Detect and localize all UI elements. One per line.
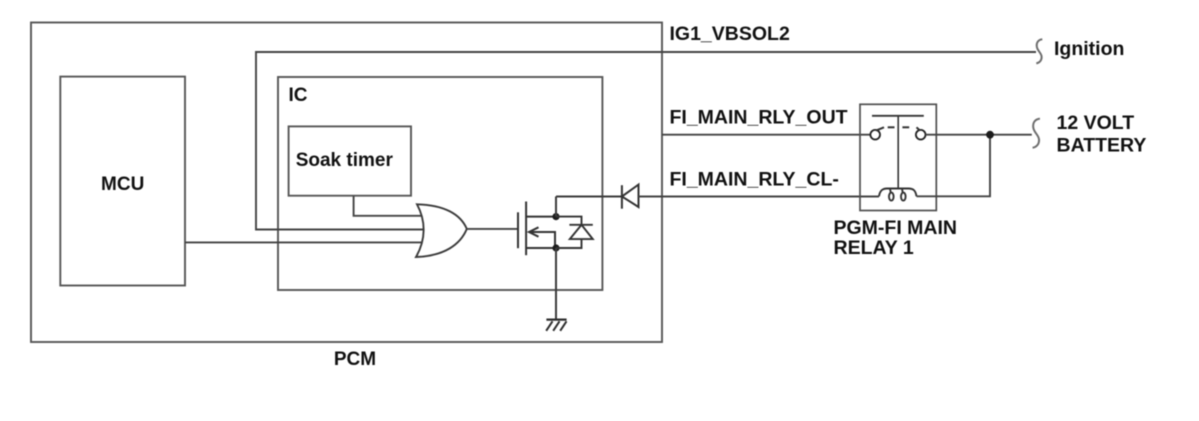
body stub with arrow [530,232,555,248]
svg-text:PCM: PCM [334,349,376,370]
wire drain up to FI_MAIN_RLY_CL- [555,197,557,217]
break squiggle to Ignition [1036,39,1042,63]
transistor Q1 (N-channel MOSFET) [518,202,556,256]
svg-text:12 VOLT: 12 VOLT [1057,112,1135,134]
relay K1 PGM-FI MAIN RELAY 1 box [860,104,936,210]
svg-text:FI_MAIN_RLY_OUT: FI_MAIN_RLY_OUT [670,107,848,129]
wire relay coil to battery junction [917,135,991,197]
drain stub [526,216,556,218]
relay contact terminal right [916,130,926,140]
wire FI_MAIN_RLY_CL- to diode [556,196,622,198]
or-gate U1 [416,204,467,257]
source stub [526,247,556,249]
wire relay contact to battery [926,134,1032,136]
wire OR gate output to MOSFET gate [467,228,518,230]
wire MCU output to OR gate input [185,241,434,243]
wire Soak timer output to OR gate input [354,196,432,216]
svg-text:MCU: MCU [101,174,144,195]
MCU box [60,77,185,286]
node drain junction [552,213,559,220]
relay armature top bar [872,115,924,117]
arrow [529,227,539,236]
node source junction [552,244,559,251]
diode D1 [622,185,639,209]
zener body diode across Q1 [556,217,593,248]
svg-text:PGM-FI MAIN: PGM-FI MAIN [834,217,957,239]
IC box [278,77,602,290]
svg-text:IC: IC [289,85,308,106]
relay contact terminal left [870,130,880,140]
relay movable contact (dashed) [876,127,920,130]
svg-text:IG1_VBSOL2: IG1_VBSOL2 [670,23,790,45]
svg-text:Soak timer: Soak timer [296,150,394,171]
svg-text:Ignition: Ignition [1054,38,1124,60]
wire FI_MAIN_RLY_OUT from PCM to relay contact [662,134,870,136]
break squiggle to battery [1033,119,1040,148]
wire IG1_VBSOL2 (Ignition to OR gate input) [256,52,1036,230]
wire source to ground [555,248,557,320]
svg-text:RELAY 1: RELAY 1 [834,237,914,259]
node battery junction [986,131,994,139]
PCM box [31,23,662,343]
svg-text:FI_MAIN_RLY_CL-: FI_MAIN_RLY_CL- [670,169,839,191]
gate bar [517,212,519,248]
Soak timer box [289,126,411,195]
wire FI_MAIN_RLY_CL- from diode to relay coil [639,196,880,198]
ground [546,320,566,331]
channel bar [525,202,527,256]
relay plunger vertical [897,116,899,189]
svg-text:BATTERY: BATTERY [1057,135,1147,157]
relay coil [879,189,917,201]
